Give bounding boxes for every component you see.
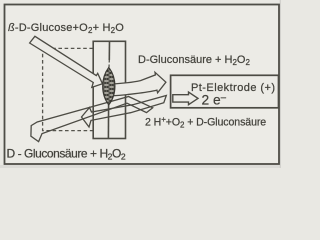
svg-text:ß-D-Glucose+O2+ H2O: ß-D-Glucose+O2+ H2O <box>8 22 124 35</box>
